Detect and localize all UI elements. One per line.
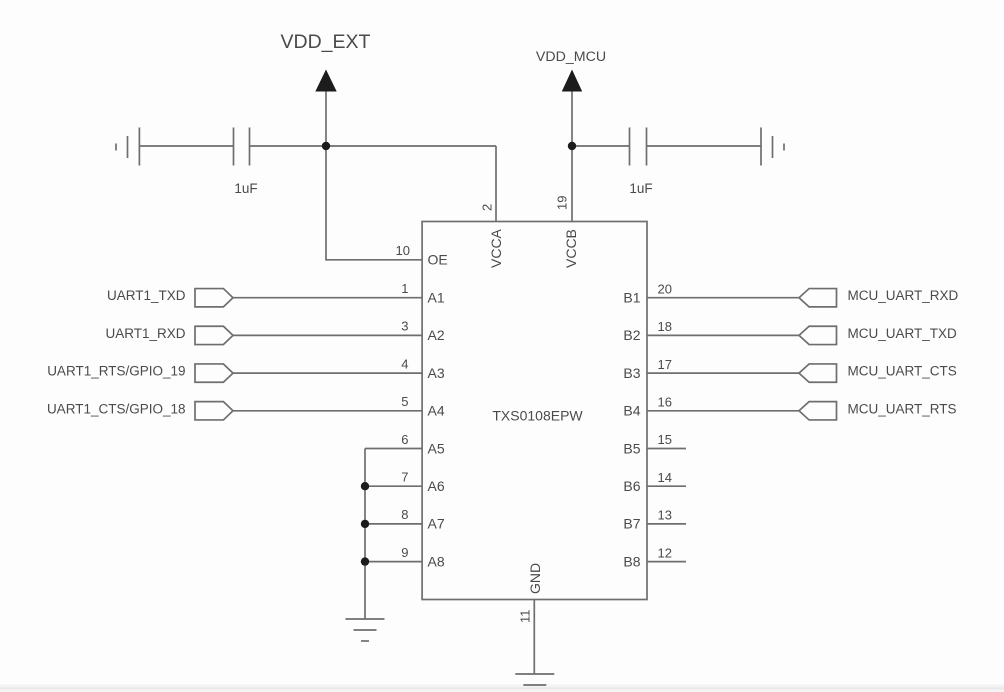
svg-text:10: 10: [396, 243, 410, 258]
wire OE branch: [326, 146, 422, 260]
net labels left: [47, 288, 186, 416]
svg-text:3: 3: [401, 319, 408, 334]
svg-text:20: 20: [658, 281, 672, 296]
svg-text:B3: B3: [623, 365, 640, 381]
svg-text:B7: B7: [623, 516, 640, 532]
svg-text:8: 8: [401, 507, 408, 522]
svg-text:UART1_TXD: UART1_TXD: [107, 288, 186, 303]
pin numbers left: [396, 243, 410, 560]
svg-text:13: 13: [658, 508, 672, 523]
wire B2: [647, 334, 799, 336]
svg-text:B6: B6: [623, 478, 640, 494]
svg-text:UART1_RTS/GPIO_19: UART1_RTS/GPIO_19: [47, 364, 185, 379]
left pins A1..A4 with flags: [195, 289, 422, 641]
svg-text:B8: B8: [623, 553, 640, 569]
pin numbers top/bottom (rotated): [480, 196, 570, 623]
wire B5 stub: [647, 448, 686, 450]
wire B8 stub: [647, 561, 686, 563]
svg-text:A2: A2: [428, 327, 445, 343]
wire B7 stub: [647, 523, 686, 525]
wire A7: [365, 523, 422, 525]
flag UART1_CTS: [195, 402, 233, 420]
svg-text:A6: A6: [428, 478, 445, 494]
node VDD_EXT junction: [322, 142, 330, 150]
svg-text:VCCB: VCCB: [563, 229, 579, 268]
svg-text:A4: A4: [428, 403, 445, 419]
svg-text:VCCA: VCCA: [488, 228, 504, 268]
svg-text:15: 15: [658, 432, 672, 447]
svg-text:UART1_RXD: UART1_RXD: [105, 326, 185, 341]
svg-text:9: 9: [401, 545, 408, 560]
wire GND pin 11: [533, 600, 535, 675]
svg-text:5: 5: [401, 394, 408, 409]
svg-text:B2: B2: [623, 327, 640, 343]
svg-text:A5: A5: [428, 440, 445, 456]
pin numbers right: [658, 281, 672, 560]
svg-text:A3: A3: [428, 365, 445, 381]
svg-text:14: 14: [658, 470, 672, 485]
power arrow VDD_MCU: [562, 70, 582, 92]
IC U1 body: [422, 222, 647, 600]
wire A1: [233, 297, 422, 299]
svg-text:A1: A1: [428, 290, 445, 306]
svg-text:GND: GND: [527, 563, 543, 594]
svg-text:VDD_EXT: VDD_EXT: [281, 31, 371, 53]
wire A5: [365, 448, 422, 450]
svg-text:B5: B5: [623, 440, 640, 456]
flag MCU_UART_TXD: [799, 326, 837, 344]
svg-text:7: 7: [401, 470, 408, 485]
svg-text:1uF: 1uF: [629, 181, 652, 196]
svg-text:TXS0108EPW: TXS0108EPW: [492, 408, 583, 424]
power stem VDD_MCU: [571, 90, 573, 146]
svg-text:VDD_MCU: VDD_MCU: [536, 49, 606, 65]
flag UART1_RTS: [195, 364, 233, 382]
svg-text:1: 1: [401, 281, 408, 296]
svg-text:UART1_CTS/GPIO_18: UART1_CTS/GPIO_18: [47, 401, 186, 416]
svg-text:1uF: 1uF: [234, 181, 257, 196]
svg-text:MCU_UART_TXD: MCU_UART_TXD: [848, 326, 958, 341]
ground bottom center: [515, 674, 554, 685]
svg-text:18: 18: [658, 319, 672, 334]
svg-text:B1: B1: [623, 290, 640, 306]
wire A4: [233, 410, 422, 412]
net labels right: [848, 288, 959, 416]
wire B6 stub: [647, 485, 686, 487]
power arrow VDD_EXT: [315, 70, 336, 92]
svg-text:6: 6: [401, 432, 408, 447]
node A8 junction: [361, 557, 369, 565]
junction dots / power arrows: [315, 70, 582, 151]
node VDD_MCU junction: [568, 142, 576, 150]
flag MCU_UART_RXD: [799, 289, 837, 307]
svg-text:19: 19: [555, 196, 570, 210]
wire A3: [233, 372, 422, 374]
flag UART1_RXD: [195, 326, 233, 344]
svg-text:16: 16: [658, 395, 672, 410]
svg-text:MCU_UART_CTS: MCU_UART_CTS: [848, 364, 957, 379]
wire: [139, 145, 233, 147]
ground left bottom: [346, 619, 385, 641]
flag MCU_UART_RTS: [799, 402, 837, 420]
svg-text:A7: A7: [428, 516, 445, 532]
wire A6: [365, 485, 422, 487]
ground (sideways, right): [761, 128, 784, 166]
wire VCCB drop: [571, 146, 573, 222]
right pins B1..B4 with flags: [515, 289, 836, 685]
flag MCU_UART_CTS: [799, 364, 837, 382]
svg-text:12: 12: [658, 545, 672, 560]
power stem VDD_EXT: [325, 90, 327, 146]
node A6 junction: [361, 482, 369, 490]
svg-text:4: 4: [401, 356, 408, 371]
capacitor C1 1uF: [234, 128, 250, 166]
wire A8: [365, 561, 422, 563]
svg-text:2: 2: [480, 204, 495, 211]
wire VCCA drop: [495, 146, 497, 222]
wire B3: [647, 372, 799, 374]
wire B1: [647, 297, 799, 299]
capacitor C2 1uF: [630, 128, 647, 166]
wire: [250, 145, 497, 147]
flag UART1_TXD: [195, 289, 233, 307]
wire: [647, 145, 762, 147]
pin names inside IC: [428, 228, 641, 594]
wire: [572, 145, 629, 147]
svg-text:A8: A8: [428, 553, 445, 569]
svg-text:B4: B4: [623, 403, 640, 419]
node A7 junction: [361, 520, 369, 528]
ground (sideways, left): [116, 128, 139, 166]
junction dots A6 A7 A8: [361, 482, 369, 566]
svg-text:17: 17: [658, 357, 672, 372]
svg-text:MCU_UART_RTS: MCU_UART_RTS: [848, 401, 957, 416]
svg-text:11: 11: [518, 610, 533, 624]
svg-text:OE: OE: [428, 252, 448, 268]
wire A2: [233, 334, 422, 336]
svg-text:MCU_UART_RXD: MCU_UART_RXD: [848, 288, 959, 303]
wire bus A5-A8 to ground: [364, 449, 366, 620]
wire B4: [647, 410, 799, 412]
